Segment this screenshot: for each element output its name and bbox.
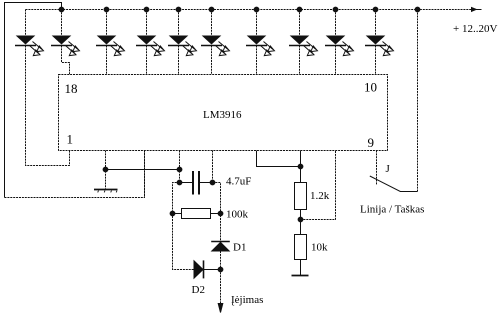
svg-text:J: J: [386, 163, 391, 175]
svg-text:100k: 100k: [226, 209, 249, 221]
LED D10: [365, 10, 394, 75]
LED D9: [325, 10, 354, 75]
LED D3: [96, 10, 125, 75]
diode D1: [211, 242, 230, 252]
ground pin 2 stub: [105, 151, 107, 190]
wire 1.2k to 10k: [300, 210, 302, 235]
svg-text:+ 12..20V: + 12..20V: [453, 23, 497, 35]
svg-text:1.2k: 1.2k: [310, 190, 330, 202]
wire divider tee to pin 8 stub: [301, 151, 336, 220]
wire outer V+ loop to pin 3: [5, 3, 62, 198]
wire pin 7 stub: [300, 151, 302, 167]
capacitor C1 4.7uF: [180, 171, 213, 195]
svg-text:LM3916: LM3916: [203, 109, 242, 121]
svg-text:9: 9: [368, 135, 375, 150]
op-amp U1 LM3916 box: [59, 75, 388, 151]
wire right rail switch to V+: [417, 10, 419, 192]
svg-text:10: 10: [364, 80, 377, 95]
LED D1: [15, 10, 70, 166]
diode D2: [194, 260, 221, 278]
wire capacitor right node to right branch: [213, 183, 221, 241]
LED D2: [51, 10, 80, 75]
wire pin 5 stub down: [179, 151, 181, 183]
LED D7: [246, 10, 275, 75]
wire input node down: [220, 270, 222, 305]
LED D5: [168, 10, 197, 75]
svg-text:4.7uF: 4.7uF: [226, 176, 251, 188]
junction dots lower: [103, 164, 304, 273]
ground under 10k: [292, 275, 309, 277]
resistor R2 1.2k: [295, 183, 307, 210]
wire V+ top rail: [26, 9, 478, 11]
wire node to 1.2k: [300, 167, 302, 183]
svg-text:18: 18: [65, 81, 78, 96]
wire 10k to ground: [300, 260, 302, 276]
svg-text:Įėjimas: Įėjimas: [231, 294, 263, 306]
wire ground node to pin 5 node: [106, 169, 180, 171]
ground: [94, 190, 118, 193]
wire loop left side to D2: [173, 183, 195, 270]
wire pin stub to capacitor right: [212, 151, 214, 183]
top rail arrowhead: [471, 7, 478, 12]
svg-text:1: 1: [67, 132, 74, 147]
svg-text:10k: 10k: [311, 242, 328, 254]
svg-text:Linija / Taškas: Linija / Taškas: [360, 204, 424, 216]
wire pin 3 stub down to loop: [144, 151, 146, 198]
wire pin 6 stub and tee: [257, 151, 301, 167]
input arrow: [218, 304, 223, 313]
junction dots top rail: [59, 7, 421, 13]
LED D6: [201, 10, 230, 75]
LED D8: [289, 10, 318, 75]
wire pin 9 stub: [376, 151, 378, 185]
wire rail arrow tail: [477, 9, 482, 11]
wire D1 to D2 node: [220, 251, 222, 270]
resistor R1 100k: [173, 209, 221, 219]
svg-text:D2: D2: [192, 284, 205, 296]
switch J lever: [370, 176, 418, 192]
resistor R3 10k: [295, 235, 307, 260]
LED D4: [136, 10, 165, 75]
svg-text:D1: D1: [233, 242, 246, 254]
